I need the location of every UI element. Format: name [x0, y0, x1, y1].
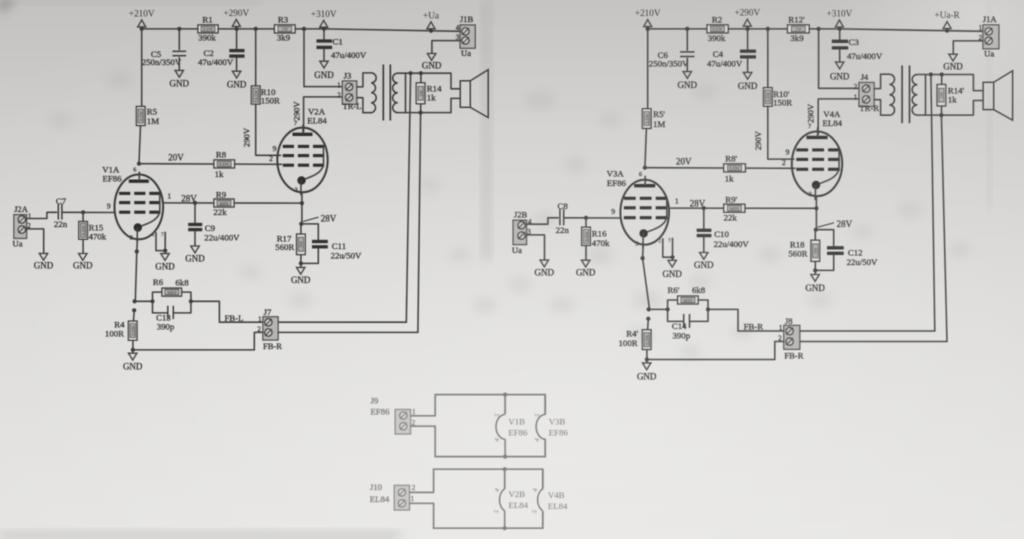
junction — [419, 71, 423, 75]
svg-text:22u/50V: 22u/50V — [331, 250, 362, 260]
tube V4A EL84 — [782, 109, 843, 200]
svg-text:3: 3 — [635, 241, 638, 248]
svg-text:GND: GND — [694, 260, 714, 270]
svg-text:GND: GND — [185, 253, 205, 263]
junction — [641, 256, 645, 260]
wire 28V — [163, 202, 302, 204]
svg-text:GND: GND — [805, 283, 825, 293]
capacitor C7 — [54, 196, 68, 229]
resistor R10' — [764, 88, 793, 108]
svg-text:C1: C1 — [333, 37, 343, 47]
svg-text:C8: C8 — [558, 201, 569, 211]
svg-text:1W: 1W — [418, 89, 423, 96]
wire screen 290V — [256, 104, 281, 155]
wire cathode — [136, 239, 139, 251]
svg-text:250n/350V: 250n/350V — [649, 58, 689, 68]
svg-text:47u/400V: 47u/400V — [847, 51, 883, 61]
resistor R8' — [724, 153, 746, 183]
svg-text:4: 4 — [456, 24, 460, 32]
junction — [299, 222, 303, 226]
svg-text:GND: GND — [738, 81, 758, 91]
connector J4 — [854, 72, 874, 107]
svg-text:+310V: +310V — [311, 9, 337, 19]
resistor R2 — [707, 15, 728, 43]
wire — [141, 29, 143, 107]
svg-text:100R: 100R — [105, 329, 124, 339]
svg-text:47u/400V: 47u/400V — [707, 58, 743, 68]
svg-text:J2B: J2B — [514, 210, 528, 220]
node 28V label — [818, 219, 853, 229]
wire +310V to OT primary — [819, 29, 859, 88]
wire +310V to OT primary — [304, 29, 342, 87]
wire cathode — [301, 192, 303, 224]
wire feedback — [708, 309, 784, 331]
capacitor C9 — [188, 223, 240, 243]
wire J1 return — [432, 41, 460, 54]
junction — [254, 27, 258, 31]
wire — [300, 263, 302, 267]
svg-text:V1B: V1B — [508, 417, 525, 427]
svg-text:1: 1 — [337, 81, 341, 89]
svg-text:R9': R9' — [725, 195, 737, 205]
svg-text:V4B: V4B — [548, 490, 565, 500]
speaker — [983, 71, 1013, 120]
svg-text:1M: 1M — [147, 116, 159, 126]
junction — [646, 317, 650, 321]
wire cathode — [642, 246, 645, 259]
heater V3B EF86 — [533, 395, 568, 457]
svg-text:0.6W: 0.6W — [254, 89, 259, 100]
svg-text:EF86: EF86 — [607, 178, 627, 188]
heater V4B EL84 — [531, 469, 568, 528]
wire — [585, 218, 587, 227]
svg-text:20V: 20V — [168, 153, 184, 163]
svg-text:J9: J9 — [371, 395, 379, 405]
wire — [814, 270, 816, 274]
svg-text:+210V: +210V — [129, 8, 155, 18]
junction — [300, 201, 304, 205]
wire — [164, 251, 166, 254]
svg-text:+Ua: +Ua — [423, 10, 439, 20]
svg-text:9: 9 — [273, 144, 277, 153]
junction — [645, 357, 649, 361]
ground — [637, 363, 657, 382]
svg-text:1k: 1k — [948, 94, 957, 104]
svg-text:20V: 20V — [676, 157, 692, 167]
heater V2B EL84 — [493, 469, 529, 528]
svg-text:0.6W: 0.6W — [645, 113, 650, 124]
svg-text:GND: GND — [73, 261, 93, 271]
svg-text:GND: GND — [155, 262, 175, 272]
wire — [814, 230, 816, 241]
svg-text:R12': R12' — [788, 15, 805, 25]
svg-text:1M: 1M — [653, 119, 665, 129]
svg-text:3: 3 — [809, 191, 812, 198]
wire 20V to EL84 g1 — [645, 167, 795, 170]
wire — [646, 360, 648, 363]
wire — [194, 232, 196, 246]
wire — [133, 310, 136, 321]
resistor R5' — [642, 109, 665, 129]
svg-text:C9: C9 — [205, 223, 216, 233]
wire — [686, 29, 688, 50]
connector J7 — [257, 307, 282, 351]
svg-text:2: 2 — [782, 158, 786, 167]
wire — [686, 58, 688, 71]
resistor R4 — [105, 319, 137, 340]
svg-text:150R: 150R — [261, 96, 280, 106]
capacitor C13 — [156, 306, 175, 332]
wire — [649, 308, 668, 310]
capacitor C1 — [317, 37, 367, 61]
svg-text:MF0: MF0 — [167, 290, 177, 295]
svg-text:EF86: EF86 — [370, 406, 390, 416]
tube V2A EL84 — [269, 106, 328, 195]
connector J10 — [370, 482, 416, 510]
capacitor C2 — [198, 48, 245, 67]
capacitor C4 — [707, 49, 756, 68]
svg-text:390p: 390p — [673, 331, 691, 341]
wire input — [27, 212, 57, 218]
power +Ua-R — [935, 10, 961, 31]
svg-text:GND: GND — [678, 80, 698, 90]
wire — [135, 300, 153, 302]
wire +V rail — [648, 29, 984, 31]
node +290V — [746, 27, 750, 31]
svg-text:1k: 1k — [427, 92, 436, 102]
wire — [301, 224, 318, 240]
resistor R10 — [251, 86, 280, 106]
junction — [702, 206, 706, 210]
capacitor C5 — [142, 49, 186, 67]
svg-text:Ua: Ua — [12, 238, 22, 248]
junction — [503, 526, 507, 530]
resistor R14 — [416, 83, 442, 104]
junction — [929, 72, 933, 76]
wire OT secondary hot — [406, 73, 460, 89]
svg-text:+210V: +210V — [635, 8, 661, 18]
wire feedback sense — [931, 75, 935, 332]
capacitor C8 — [556, 201, 570, 235]
wire heater — [411, 426, 436, 456]
wire — [814, 261, 816, 270]
ground — [155, 254, 175, 272]
wire — [672, 257, 674, 260]
svg-text:7: 7 — [808, 123, 811, 130]
wire — [300, 224, 302, 234]
svg-text:TR-R: TR-R — [859, 103, 879, 113]
svg-text:FB-R: FB-R — [784, 350, 803, 360]
junction — [814, 206, 818, 210]
transformer TR-R — [859, 66, 925, 124]
svg-text:7: 7 — [668, 238, 671, 244]
svg-text:V2B: V2B — [509, 489, 526, 499]
svg-text:390k: 390k — [198, 33, 216, 43]
svg-text:28V: 28V — [837, 219, 853, 229]
svg-text:3k9: 3k9 — [790, 33, 804, 43]
node +210V — [646, 27, 650, 31]
junction — [81, 210, 85, 214]
svg-text:1W: 1W — [795, 27, 802, 32]
capacitor C6 — [649, 50, 695, 68]
wire — [236, 58, 238, 71]
svg-text:R4': R4' — [626, 328, 638, 338]
svg-text:TR-L: TR-L — [342, 101, 361, 111]
svg-text:150R: 150R — [773, 98, 792, 108]
wire — [747, 29, 749, 50]
svg-text:C10: C10 — [714, 229, 729, 239]
connector J2B — [512, 210, 532, 255]
svg-text:EL84: EL84 — [307, 115, 327, 125]
wire — [236, 29, 238, 49]
junction — [670, 255, 674, 259]
junction — [685, 27, 689, 31]
wire — [815, 255, 833, 270]
svg-text:0.6W: 0.6W — [81, 225, 86, 236]
svg-text:1: 1 — [979, 24, 983, 32]
node 28V label — [303, 214, 337, 224]
svg-text:R5: R5 — [147, 107, 158, 117]
wire to EF86 grid — [62, 211, 115, 213]
node 20V — [137, 162, 141, 166]
svg-text:2: 2 — [269, 154, 273, 163]
wire — [323, 29, 325, 40]
wire input — [527, 218, 559, 224]
svg-text:+310V: +310V — [827, 8, 853, 18]
wire — [132, 340, 134, 350]
ground — [291, 267, 311, 285]
junction — [817, 27, 821, 31]
wire speaker return — [941, 115, 947, 341]
wire heater — [410, 469, 434, 492]
svg-text:1k: 1k — [215, 169, 224, 179]
junction — [814, 228, 818, 232]
wire heater — [410, 503, 434, 528]
svg-text:J3: J3 — [344, 71, 352, 81]
ground — [576, 260, 596, 278]
wire — [420, 73, 422, 83]
svg-text:22n: 22n — [54, 219, 68, 229]
connector J1A — [979, 14, 999, 59]
wire heater — [434, 468, 543, 470]
wire — [645, 128, 647, 167]
heater V1B EF86 — [493, 395, 528, 457]
svg-text:R16: R16 — [592, 228, 607, 238]
node +Ua — [429, 29, 433, 33]
ground — [422, 54, 442, 71]
paper mottling — [524, 90, 556, 110]
svg-text:R8': R8' — [725, 153, 737, 163]
wire cathode to bias net — [135, 252, 137, 302]
wire — [839, 49, 841, 62]
svg-text:R1: R1 — [202, 15, 212, 25]
svg-text:GND: GND — [943, 61, 963, 71]
junction — [193, 201, 197, 205]
wire — [178, 58, 180, 71]
svg-text:2: 2 — [659, 238, 662, 244]
svg-text:22k: 22k — [724, 213, 738, 223]
wire heater — [411, 395, 436, 416]
svg-text:0.6W: 0.6W — [712, 27, 723, 32]
svg-text:1W: 1W — [281, 27, 288, 32]
svg-text:1: 1 — [854, 94, 858, 102]
junction — [299, 261, 303, 265]
svg-text:3W: 3W — [299, 240, 304, 247]
svg-text:MF0: MF0 — [730, 206, 740, 211]
book gutter crease — [483, 0, 490, 260]
svg-text:GND: GND — [227, 79, 247, 89]
connector J2A — [12, 204, 31, 248]
svg-text:0.6W: 0.6W — [139, 110, 144, 121]
wire OT secondary return — [406, 98, 460, 112]
junction — [163, 249, 167, 253]
svg-text:GND: GND — [576, 268, 596, 278]
svg-text:+Ua-R: +Ua-R — [935, 10, 961, 20]
svg-text:22k: 22k — [213, 207, 227, 217]
wire — [544, 439, 546, 456]
svg-text:Ua: Ua — [461, 48, 471, 58]
ground — [694, 253, 714, 271]
junction — [132, 308, 136, 312]
node +290V — [235, 27, 239, 31]
svg-text:C7: C7 — [56, 196, 67, 206]
wire — [747, 59, 749, 72]
wire — [82, 239, 84, 253]
junction — [177, 27, 181, 31]
svg-text:470k: 470k — [592, 238, 610, 248]
junction — [503, 455, 507, 459]
wire EL84 anode to OT — [304, 97, 343, 132]
svg-text:290V: 290V — [242, 127, 252, 147]
power +210V — [635, 8, 661, 29]
svg-text:100R: 100R — [619, 338, 638, 348]
svg-text:EF86: EF86 — [549, 428, 569, 438]
wire — [174, 301, 191, 313]
svg-text:1: 1 — [167, 192, 171, 201]
ground — [805, 275, 825, 293]
svg-text:3: 3 — [130, 234, 133, 241]
junction — [940, 72, 944, 76]
wire — [194, 203, 196, 223]
svg-text:C12: C12 — [848, 248, 863, 258]
wire OT secondary hot — [926, 75, 983, 91]
junction — [766, 27, 770, 31]
junction — [939, 113, 943, 117]
svg-text:FB-R: FB-R — [263, 341, 282, 351]
svg-text:FB-R: FB-R — [744, 322, 764, 332]
wire EL84 anode to OT — [818, 99, 859, 135]
svg-text:GND: GND — [314, 70, 334, 80]
node +310V — [322, 27, 326, 31]
svg-text:GND: GND — [291, 275, 311, 285]
wire feedback sense — [278, 321, 406, 323]
svg-text:C3: C3 — [849, 37, 860, 47]
junction — [584, 216, 588, 220]
junction — [647, 307, 651, 311]
svg-text:3k9: 3k9 — [277, 33, 291, 43]
svg-text:47u/400V: 47u/400V — [331, 50, 367, 60]
svg-text:1W: 1W — [939, 91, 944, 98]
resistor R9' — [724, 195, 745, 223]
svg-text:+290V: +290V — [223, 8, 249, 18]
svg-text:0.6W: 0.6W — [730, 166, 741, 171]
svg-text:1: 1 — [779, 324, 783, 332]
tube V3A EF86 — [607, 169, 679, 249]
wire — [698, 300, 708, 309]
power +290V — [223, 8, 249, 29]
connector J8 — [778, 316, 804, 361]
wire ground return — [133, 332, 263, 350]
node +310V — [838, 27, 842, 31]
wire speaker return — [800, 341, 947, 343]
svg-text:22u/400V: 22u/400V — [714, 239, 750, 249]
capacitor C3 — [832, 37, 883, 61]
svg-text:250n/350V: 250n/350V — [142, 57, 182, 67]
wire — [941, 106, 943, 115]
resistor R16 — [582, 227, 610, 248]
svg-text:3: 3 — [294, 186, 297, 193]
node 20V — [643, 166, 647, 170]
svg-text:R8: R8 — [216, 150, 227, 160]
power +310V — [311, 9, 337, 30]
svg-text:MF0: MF0 — [683, 298, 693, 303]
junction — [135, 249, 139, 253]
svg-text:EF86: EF86 — [508, 428, 528, 438]
ground — [34, 253, 54, 270]
wire feedback sense — [406, 73, 410, 322]
ground — [185, 246, 205, 263]
svg-text:28V: 28V — [321, 214, 337, 224]
svg-text:0.6W: 0.6W — [584, 231, 589, 242]
wire — [668, 309, 683, 321]
resistor R9 — [213, 190, 234, 218]
resistor R3 — [275, 15, 296, 43]
junction — [419, 111, 423, 115]
svg-text:V3B: V3B — [549, 417, 566, 427]
capacitor C11 — [312, 241, 362, 260]
svg-text:J10: J10 — [370, 482, 382, 492]
ground — [123, 353, 143, 371]
junction — [133, 299, 137, 303]
junction — [409, 71, 413, 75]
wire — [544, 395, 546, 415]
svg-text:22u/400V: 22u/400V — [204, 233, 240, 243]
resistor R6 — [153, 277, 189, 296]
wire — [82, 212, 84, 221]
wire — [542, 513, 544, 529]
svg-text:J2A: J2A — [14, 204, 29, 214]
svg-text:9: 9 — [786, 148, 790, 157]
wire OT secondary return — [926, 101, 983, 116]
svg-text:560R: 560R — [788, 248, 807, 258]
junction — [503, 467, 507, 471]
wire to EF86 grid — [564, 217, 620, 219]
svg-text:GND: GND — [535, 268, 555, 278]
svg-text:GND: GND — [123, 361, 143, 371]
power +290V — [734, 8, 760, 29]
svg-text:R6': R6' — [667, 285, 679, 295]
svg-text:1: 1 — [675, 197, 679, 206]
resistor R14' — [937, 85, 964, 106]
wire — [420, 104, 422, 113]
wire — [703, 238, 705, 253]
connector J1B — [456, 14, 475, 58]
tube shield pins 2,7 — [156, 232, 165, 250]
svg-text:GND: GND — [662, 269, 682, 279]
svg-text:560R: 560R — [275, 242, 294, 252]
wire cathode to bias net — [643, 258, 650, 309]
wire — [132, 350, 134, 353]
